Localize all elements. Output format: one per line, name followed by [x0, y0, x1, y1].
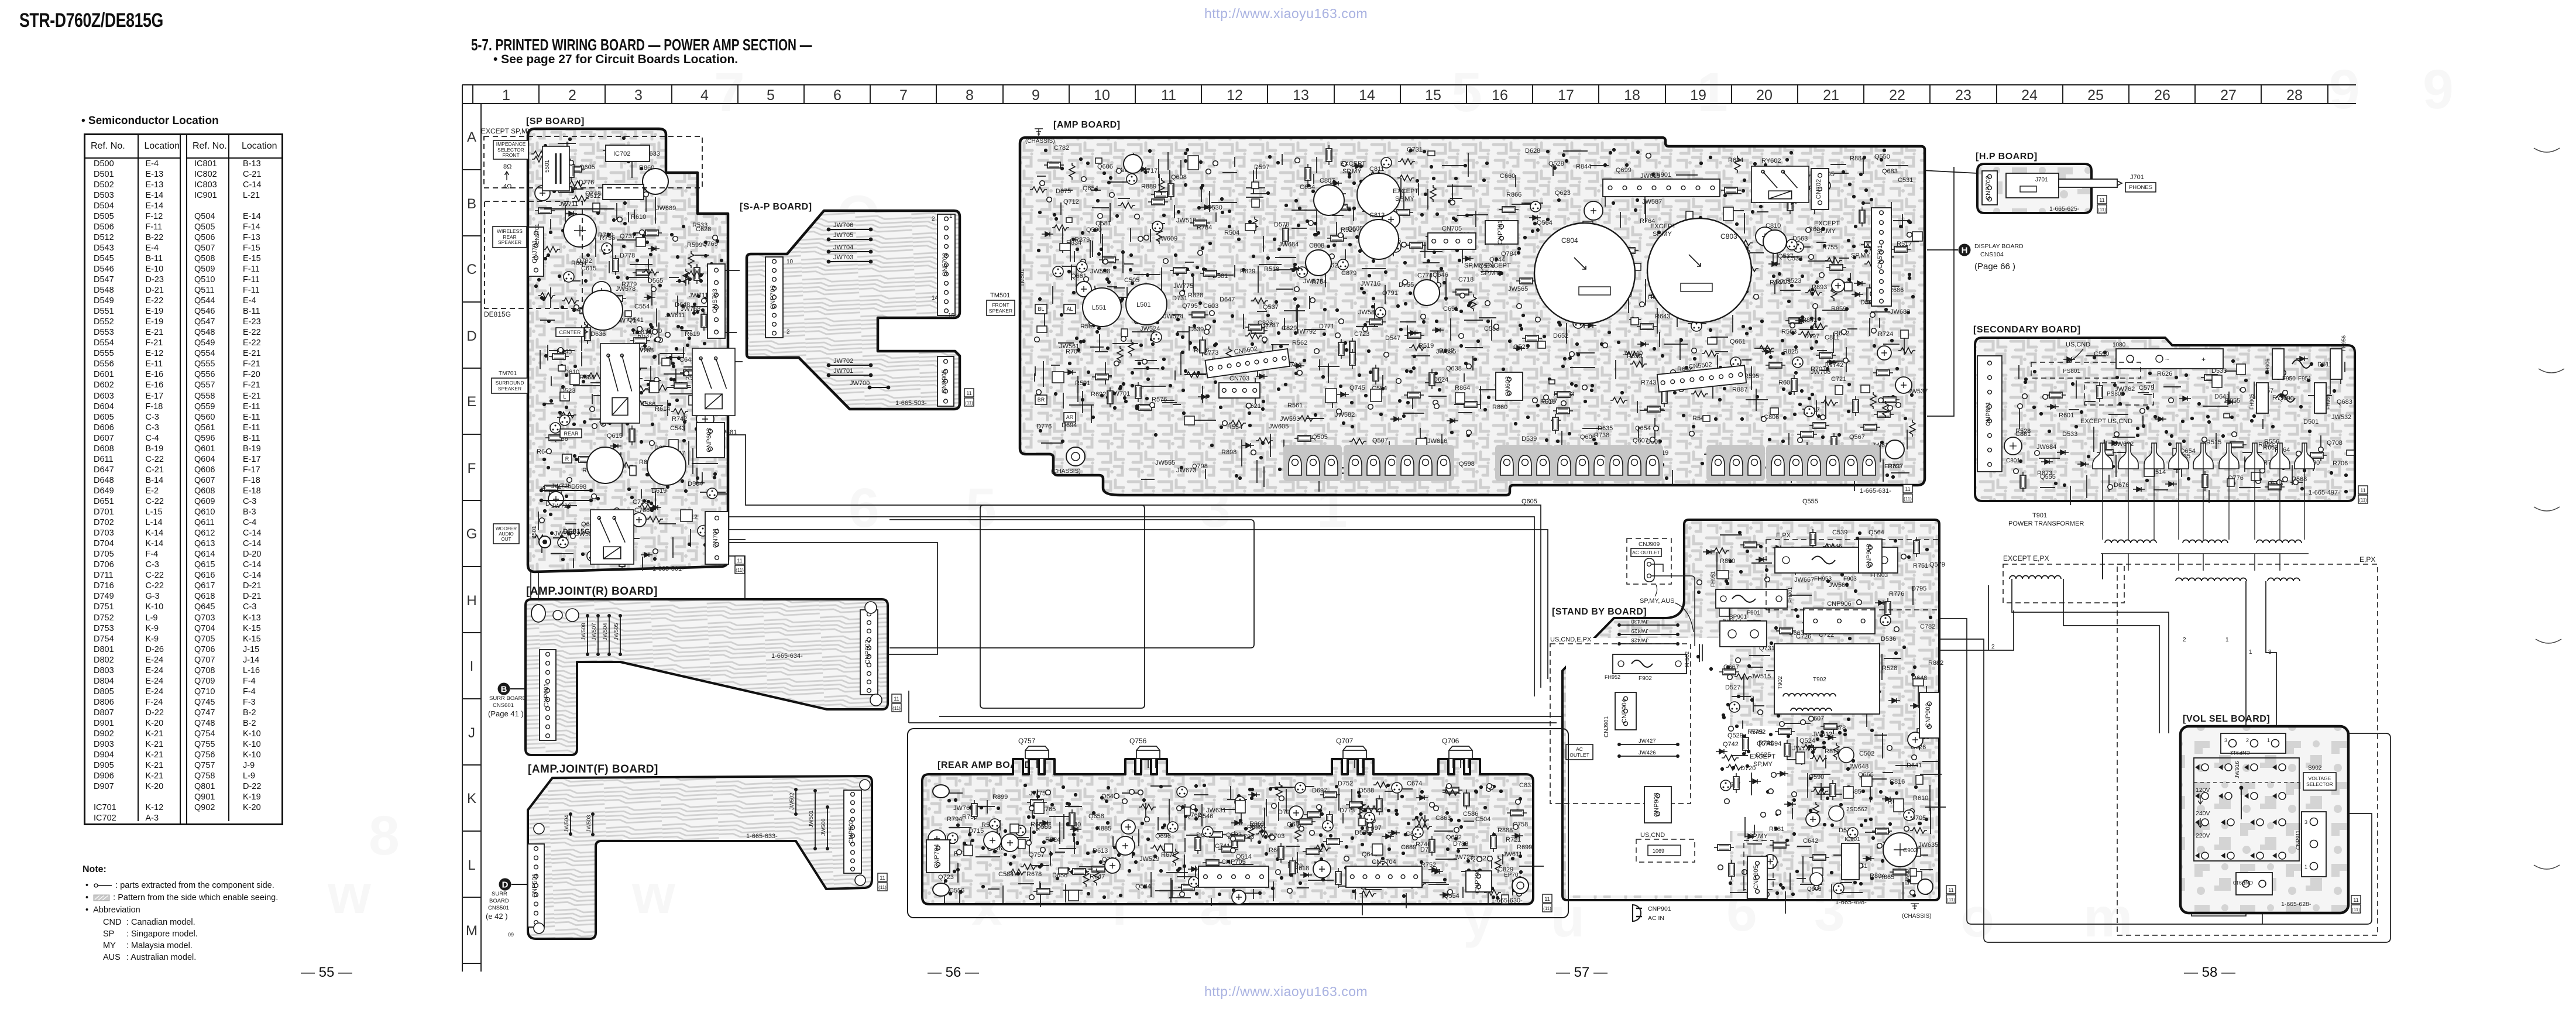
svg-text:w: w	[327, 863, 372, 925]
svg-text:Q505: Q505	[1312, 434, 1328, 441]
secondary to standby wires	[2102, 554, 2103, 579]
svg-text:J701: J701	[2130, 174, 2144, 181]
EB701 hole	[1066, 447, 1085, 466]
svg-text:PS801: PS801	[2063, 368, 2080, 375]
svg-text:CNP702: CNP702	[1985, 176, 1992, 200]
svg-text:IMPEDANCE: IMPEDANCE	[496, 141, 526, 147]
svg-text:C774: C774	[1417, 272, 1433, 279]
svg-text:JW507: JW507	[591, 623, 597, 640]
svg-text:T901: T901	[2032, 512, 2047, 519]
SP board component cluster	[531, 136, 746, 571]
svg-text:CNJ701: CNJ701	[534, 223, 541, 245]
svg-text:EXCEPT: EXCEPT	[1650, 223, 1676, 230]
svg-text:R743: R743	[1641, 379, 1656, 386]
transistor Q757	[1025, 746, 1049, 768]
wire JW704	[829, 251, 871, 252]
svg-text:Q537: Q537	[1263, 304, 1279, 311]
svg-text:JW500: JW500	[820, 818, 827, 836]
svg-text:[VOL SEL BOARD]: [VOL SEL BOARD]	[2183, 714, 2270, 724]
connector CNP603	[696, 423, 724, 458]
svg-text:JW705: JW705	[833, 232, 853, 239]
CENTER label	[556, 328, 584, 337]
wireless rear speaker label	[493, 226, 527, 248]
svg-text:D613: D613	[1093, 847, 1108, 854]
svg-text:1-665-498-: 1-665-498-	[1835, 899, 1867, 906]
svg-text:R890: R890	[1720, 558, 1735, 565]
svg-text:WIRELESS: WIRELESS	[497, 228, 523, 234]
svg-text:JW504: JW504	[564, 815, 570, 832]
SECONDARY board component cluster	[2014, 351, 2354, 505]
svg-text:CNP706: CNP706	[1474, 869, 1481, 894]
svg-text:D501: D501	[2303, 418, 2319, 425]
svg-text:R528: R528	[1882, 665, 1897, 672]
svg-text:L501: L501	[1136, 301, 1150, 308]
svg-text:JW588: JW588	[1090, 268, 1110, 275]
svg-text:Q737: Q737	[620, 233, 636, 240]
svg-text:[SECONDARY BOARD]: [SECONDARY BOARD]	[1973, 325, 2081, 335]
PS801 PS802 dashed	[2031, 362, 2141, 378]
page number 56	[928, 965, 979, 981]
svg-text:F901: F901	[1747, 610, 1760, 616]
svg-text:M: M	[466, 923, 478, 939]
svg-text:CNP703: CNP703	[770, 285, 777, 310]
svg-text:R888: R888	[1497, 827, 1513, 834]
wire CNP602 to AMP	[729, 543, 937, 654]
svg-text:26: 26	[2154, 87, 2170, 104]
svg-text:CNP910: CNP910	[2233, 880, 2253, 886]
svg-text:Q529: Q529	[1727, 732, 1743, 739]
svg-text:CNP603: CNP603	[706, 428, 713, 452]
svg-text:BR: BR	[1038, 397, 1045, 403]
svg-text:F902: F902	[1639, 675, 1652, 682]
svg-text:R721: R721	[1506, 836, 1521, 843]
semiconductor location table	[84, 133, 283, 825]
svg-text:Q638: Q638	[1446, 365, 1462, 372]
svg-text:(11): (11)	[878, 885, 887, 890]
connector CNP705	[1198, 866, 1269, 887]
svg-text:SPEAKER: SPEAKER	[498, 239, 521, 245]
svg-text:R859: R859	[1831, 306, 1846, 313]
svg-text:~: ~	[2165, 355, 2169, 363]
connector CN705	[1428, 233, 1476, 249]
phone jack J701	[2006, 173, 2059, 198]
svg-text:Q555: Q555	[1802, 498, 1818, 505]
svg-text:15: 15	[1425, 87, 1441, 104]
svg-text:EXCEPT: EXCEPT	[1814, 220, 1840, 227]
svg-text:CNP904: CNP904	[1621, 699, 1628, 723]
svg-text:D565: D565	[648, 277, 663, 284]
svg-text:JW689: JW689	[656, 205, 676, 212]
svg-text:JW515: JW515	[1751, 673, 1771, 680]
white clearing in stand-by board	[1566, 638, 1730, 895]
svg-text:C537: C537	[1787, 255, 1802, 262]
wire standby to volsel loop 2	[1939, 639, 2390, 942]
svg-text:R610: R610	[631, 214, 646, 221]
svg-text:SPEAKER: SPEAKER	[498, 386, 521, 392]
svg-text:17: 17	[1558, 87, 1574, 104]
svg-text:R591: R591	[1075, 380, 1090, 387]
svg-text:120V: 120V	[2196, 787, 2210, 794]
svg-text:FRONT: FRONT	[502, 152, 519, 158]
note block	[83, 864, 107, 875]
Q903	[1810, 873, 1823, 886]
svg-text:D783: D783	[1453, 840, 1468, 847]
svg-text:R751: R751	[1913, 562, 1928, 569]
svg-text:Q524: Q524	[1799, 737, 1815, 744]
svg-text:R893: R893	[1812, 284, 1827, 291]
connector CNP602	[860, 610, 878, 695]
svg-text:1-665-628-: 1-665-628-	[2281, 901, 2311, 908]
svg-text:R804: R804	[1870, 873, 1885, 880]
svg-text:R724: R724	[1878, 331, 1893, 338]
svg-text:D: D	[502, 880, 509, 890]
flag marker	[892, 694, 901, 712]
svg-text:POWER TRANSFORMER: POWER TRANSFORMER	[2008, 520, 2084, 527]
REAR AMP component cluster	[928, 780, 1544, 915]
flag marker	[2358, 486, 2368, 503]
svg-text:SP,MY: SP,MY	[1342, 168, 1362, 175]
svg-text:2: 2	[786, 329, 790, 335]
svg-text:I: I	[470, 658, 474, 674]
L label	[560, 392, 569, 401]
svg-text:C903: C903	[1903, 847, 1917, 854]
connector CNP703	[765, 257, 783, 338]
svg-text:R882: R882	[1928, 660, 1943, 667]
wire JW701	[829, 375, 871, 376]
svg-text:EP701: EP701	[1504, 872, 1521, 878]
svg-text:JW528: JW528	[1303, 278, 1323, 285]
svg-text:Q795: Q795	[1182, 303, 1198, 310]
svg-text:JW561: JW561	[1059, 343, 1079, 350]
IC901	[1842, 843, 1859, 880]
svg-text:CNS501: CNS501	[488, 905, 509, 911]
transistor Q756	[1136, 746, 1160, 768]
inductor L701	[587, 447, 623, 483]
svg-text:D694: D694	[1062, 422, 1077, 429]
svg-text:CN705: CN705	[1442, 225, 1462, 232]
svg-text:R699: R699	[1517, 844, 1532, 851]
wire loop rect B	[889, 520, 1254, 648]
svg-text:D795: D795	[1911, 585, 1926, 592]
connector CN901	[1603, 179, 1720, 197]
svg-text:R678: R678	[1026, 871, 1042, 878]
svg-text:J: J	[468, 725, 475, 741]
svg-text:D533: D533	[2062, 431, 2077, 438]
svg-text:D598: D598	[571, 483, 586, 490]
capacitor C812	[1359, 219, 1399, 259]
svg-text:TM501: TM501	[990, 292, 1010, 299]
svg-text:[AMP.JOINT(R) BOARD]: [AMP.JOINT(R) BOARD]	[526, 585, 658, 598]
JW jumpers	[587, 616, 588, 654]
svg-text:CN702: CN702	[1815, 179, 1822, 199]
svg-text:CNP601: CNP601	[543, 683, 550, 708]
svg-text:C831: C831	[1519, 782, 1534, 789]
svg-text:1: 1	[2267, 737, 2270, 743]
svg-text:C505: C505	[1124, 277, 1139, 284]
svg-text:BP901: BP901	[1729, 614, 1747, 620]
svg-text:1-665-631-: 1-665-631-	[1860, 488, 1891, 495]
svg-text:1080: 1080	[2113, 342, 2126, 348]
svg-text:Q683: Q683	[2337, 399, 2352, 406]
joint wires	[530, 572, 531, 599]
svg-text:D536: D536	[1881, 636, 1896, 643]
svg-text:SPEAKER: SPEAKER	[989, 308, 1012, 314]
svg-text:JW765: JW765	[953, 805, 973, 812]
svg-text:CNP906: CNP906	[1827, 600, 1852, 608]
svg-text:JW725: JW725	[551, 483, 571, 490]
svg-text:(11): (11)	[2098, 207, 2106, 212]
svg-text:JW725: JW725	[1454, 854, 1474, 861]
svg-text:A: A	[467, 129, 476, 145]
svg-text:[AMP.JOINT(F) BOARD]: [AMP.JOINT(F) BOARD]	[528, 763, 658, 775]
page number 55	[301, 965, 352, 981]
relay RY601	[600, 344, 640, 423]
svg-text:JW427: JW427	[1639, 738, 1656, 744]
svg-text:09: 09	[508, 932, 514, 938]
svg-text:EB703: EB703	[1884, 464, 1902, 470]
svg-text:C782: C782	[1920, 623, 1935, 630]
svg-text:R659: R659	[1627, 353, 1642, 360]
svg-text:1: 1	[949, 213, 953, 219]
svg-text:12: 12	[1227, 87, 1243, 104]
inductor L501	[1126, 284, 1167, 325]
svg-text:11: 11	[1161, 87, 1176, 104]
svg-text:D752: D752	[1338, 780, 1353, 787]
svg-text:CNS601: CNS601	[493, 702, 514, 709]
svg-text:14: 14	[1359, 87, 1375, 104]
svg-text:CNP901: CNP901	[1648, 905, 1671, 912]
svg-text:Q507: Q507	[1372, 437, 1388, 444]
svg-text:CNS704: CNS704	[1372, 859, 1396, 866]
svg-text:JW430: JW430	[1631, 618, 1648, 624]
svg-text:JW704: JW704	[833, 244, 853, 251]
inductor L601	[583, 290, 623, 330]
svg-text:AC OUTLET: AC OUTLET	[1632, 550, 1660, 555]
svg-text:R889: R889	[1141, 183, 1156, 190]
inductor L551	[1083, 288, 1121, 327]
svg-text:(11): (11)	[1947, 897, 1955, 902]
svg-text:R899: R899	[992, 794, 1008, 801]
svg-text:K: K	[467, 791, 476, 806]
svg-text:EXCEPT: EXCEPT	[1750, 753, 1775, 760]
svg-text:18: 18	[1624, 87, 1640, 104]
svg-text:WOOFER: WOOFER	[496, 526, 517, 531]
svg-text:CNS703: CNS703	[712, 289, 719, 313]
svg-text:Q606: Q606	[1097, 163, 1113, 170]
impedance selector front label	[493, 140, 528, 159]
watermark top	[1204, 6, 1368, 22]
svg-text:IC901: IC901	[1845, 836, 1860, 843]
connector CNP501	[528, 844, 544, 927]
svg-text:[H.P BOARD]: [H.P BOARD]	[1976, 152, 2038, 162]
svg-text:JW555: JW555	[1155, 459, 1175, 466]
svg-text:JW611: JW611	[665, 312, 685, 319]
CNP906	[1804, 608, 1875, 634]
svg-text:DISPLAY BOARD: DISPLAY BOARD	[1974, 243, 2024, 250]
svg-text:CNS104: CNS104	[1980, 251, 2004, 258]
svg-text:R563: R563	[1781, 328, 1797, 335]
svg-text:R515: R515	[2206, 439, 2221, 446]
svg-text:JW595: JW595	[1436, 348, 1456, 355]
volsel bottom wires	[2192, 895, 2246, 916]
svg-text:11: 11	[966, 390, 971, 396]
svg-text:11: 11	[2099, 197, 2104, 203]
svg-text:Q564: Q564	[1537, 219, 1553, 226]
svg-text:F950: F950	[2282, 376, 2296, 382]
svg-text:R619: R619	[685, 331, 700, 338]
wire loop rect A	[980, 505, 1145, 708]
svg-text:CNP902: CNP902	[1925, 703, 1932, 727]
svg-text:SP,MY: SP,MY	[1749, 833, 1768, 840]
svg-text:D590: D590	[1809, 774, 1824, 781]
svg-text:EB900: EB900	[1904, 869, 1910, 885]
jack J501	[539, 536, 551, 548]
svg-text:SP,MY: SP,MY	[1753, 761, 1773, 768]
svg-text:CNJ909: CNJ909	[1639, 541, 1660, 548]
svg-text:JW648: JW648	[1849, 763, 1869, 770]
svg-text:R742: R742	[672, 416, 687, 423]
output transistor row	[1283, 445, 1342, 481]
svg-text:SP,MY: SP,MY	[1816, 228, 1836, 235]
svg-text:Q550: Q550	[1874, 153, 1890, 160]
svg-text:JW792: JW792	[1296, 328, 1316, 335]
flag marker	[878, 873, 887, 891]
svg-text:D648: D648	[675, 301, 690, 308]
svg-text:TM501: TM501	[1019, 268, 1026, 287]
svg-text:Q707: Q707	[1336, 737, 1354, 745]
svg-text:Q534: Q534	[1135, 883, 1151, 890]
svg-text:C863: C863	[1435, 815, 1451, 822]
capacitor C808	[1306, 250, 1331, 276]
svg-text:R828: R828	[1188, 292, 1203, 299]
svg-text:D619: D619	[651, 488, 667, 495]
faint ghost watermark	[327, 59, 2454, 949]
CNP904	[1615, 692, 1636, 730]
svg-text:JW631: JW631	[1206, 807, 1226, 814]
svg-text:Q756: Q756	[1129, 737, 1147, 745]
svg-text:[AMP BOARD]: [AMP BOARD]	[1053, 120, 1121, 130]
svg-text:Q708: Q708	[2327, 440, 2343, 447]
svg-text:1-665-497-: 1-665-497-	[2309, 489, 2340, 496]
svg-text:7: 7	[899, 87, 908, 104]
connector CNP601	[540, 650, 556, 740]
svg-text:9: 9	[1032, 87, 1040, 104]
svg-text:SP,MY: SP,MY	[1851, 252, 1870, 259]
connector CNP706	[1466, 871, 1492, 892]
svg-text:R504: R504	[1224, 229, 1239, 236]
display board link	[1959, 244, 1971, 256]
svg-text:Q769: Q769	[702, 241, 718, 248]
svg-text:C807: C807	[1320, 177, 1335, 184]
svg-text:(CHASSIS): (CHASSIS)	[1025, 138, 1055, 145]
mount holes	[531, 605, 545, 622]
svg-text:R614: R614	[655, 406, 670, 413]
svg-text:D731: D731	[1172, 295, 1187, 302]
svg-text:R752: R752	[1421, 862, 1436, 869]
svg-text:8: 8	[369, 805, 400, 867]
svg-text:JW574: JW574	[1163, 313, 1183, 320]
svg-text:19: 19	[1690, 87, 1706, 104]
svg-text:JW504: JW504	[602, 623, 609, 640]
svg-text:C674: C674	[1407, 780, 1422, 787]
svg-text:J701: J701	[2035, 177, 2048, 183]
transformer coils	[2010, 576, 2061, 579]
svg-text:24: 24	[2021, 87, 2038, 104]
svg-text:CNP912: CNP912	[2230, 750, 2250, 756]
svg-text:D527: D527	[1725, 684, 1740, 691]
svg-text:FH956: FH956	[2341, 335, 2347, 351]
svg-text:C590: C590	[2094, 351, 2109, 358]
svg-text:6: 6	[833, 87, 842, 104]
svg-text:(e 42 ): (e 42 )	[486, 912, 508, 921]
svg-text:C603: C603	[1203, 303, 1218, 310]
svg-text:C801: C801	[2006, 458, 2020, 464]
svg-text:C718: C718	[1458, 276, 1474, 283]
svg-text:(Page 66 ): (Page 66 )	[1974, 262, 2015, 272]
connector CNP702	[1982, 171, 1997, 205]
svg-text:JW611: JW611	[1503, 851, 1522, 858]
svg-text:(CHASSIS): (CHASSIS)	[1051, 468, 1081, 475]
BL AL BR AR labels	[1035, 304, 1047, 314]
svg-text:FH951: FH951	[1710, 571, 1716, 587]
svg-text:+: +	[2201, 355, 2206, 363]
connector CNP910	[2236, 873, 2272, 895]
svg-text:CN5702: CN5702	[942, 253, 949, 276]
svg-text:S902: S902	[2308, 765, 2322, 771]
svg-text:JW711: JW711	[689, 292, 708, 299]
svg-text:Q723: Q723	[938, 874, 954, 881]
svg-text:SP,MY EXCEPT: SP,MY EXCEPT	[1464, 262, 1511, 269]
svg-text:D778: D778	[620, 252, 635, 259]
svg-text:D771: D771	[1319, 323, 1334, 330]
svg-text:CN603: CN603	[1505, 376, 1512, 396]
transistor Q706	[1449, 746, 1472, 768]
relay RY503	[692, 348, 735, 416]
svg-text:Q699: Q699	[1616, 167, 1632, 174]
svg-text:R898: R898	[1221, 449, 1237, 456]
svg-text:T902: T902	[1813, 677, 1826, 683]
svg-text:3: 3	[2304, 819, 2307, 825]
svg-text:m: m	[2083, 887, 2132, 949]
svg-text:B: B	[501, 685, 507, 695]
svg-text:Q567: Q567	[1849, 434, 1865, 441]
svg-text:Q581: Q581	[1095, 220, 1111, 227]
svg-text:L: L	[468, 857, 475, 873]
svg-text:Q654: Q654	[1083, 185, 1098, 192]
svg-text:Q658: Q658	[1088, 813, 1104, 820]
connector CN5502	[1656, 358, 1746, 392]
svg-text:(CHASSIS): (CHASSIS)	[1902, 913, 1932, 919]
svg-text:1: 1	[2225, 637, 2229, 643]
svg-text:13: 13	[1293, 87, 1309, 104]
svg-text:D676: D676	[2114, 482, 2129, 489]
capacitor C801	[2004, 437, 2022, 455]
svg-text:11: 11	[1544, 896, 1550, 902]
circled D link	[499, 878, 511, 891]
svg-text:11: 11	[737, 558, 742, 564]
svg-text:D547: D547	[1385, 335, 1400, 342]
svg-text:1-665-634-: 1-665-634-	[771, 653, 803, 660]
svg-text:CNP801: CNP801	[1985, 401, 1992, 426]
svg-text:9: 9	[2329, 59, 2360, 121]
circled B link	[498, 683, 510, 695]
svg-text:JW505: JW505	[613, 623, 620, 640]
svg-text:CENTER: CENTER	[559, 330, 581, 335]
svg-text:JW703: JW703	[833, 254, 853, 261]
svg-text:Q903: Q903	[1807, 886, 1822, 893]
svg-text:14: 14	[932, 295, 939, 301]
svg-text:JW683: JW683	[1890, 308, 1910, 315]
